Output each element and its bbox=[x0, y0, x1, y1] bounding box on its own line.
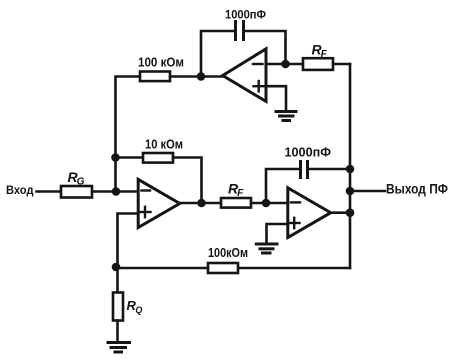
svg-text:100 кОм: 100 кОм bbox=[138, 55, 184, 69]
ground (U1 non-inverting input) bbox=[276, 112, 296, 121]
wire: top resistor to op-amp U1 output bbox=[170, 75, 223, 78]
wire: right vertical rail bbox=[349, 64, 352, 268]
op-amp U2 minus marking bbox=[142, 189, 151, 191]
wire: output tap to terminal bbox=[350, 190, 385, 193]
wire: R_G to U2 inverting input bbox=[92, 190, 138, 193]
resistor 10 кОм bbox=[143, 153, 173, 163]
wire: bottom feedback left segment bbox=[116, 267, 208, 270]
op-amp U3 (integrator, pointing right) bbox=[288, 188, 331, 238]
wire: U3 output to right rail bbox=[331, 211, 350, 214]
resistor 100кОм (bottom feedback) bbox=[208, 263, 238, 273]
svg-text:Выход ПФ: Выход ПФ bbox=[386, 181, 448, 196]
wire: R_F to U3 inverting input bbox=[251, 202, 288, 205]
op-amp U1 minus marking bbox=[253, 63, 263, 65]
wire: C1 right lead down to U1 inverting input node bbox=[244, 31, 286, 64]
wire: bottom feedback right segment bbox=[238, 267, 350, 270]
wire: R_F to right rail bbox=[333, 63, 350, 66]
node: junction of C1, 100k and U1 output bbox=[197, 72, 206, 81]
svg-text:RG: RG bbox=[68, 169, 85, 188]
wire: U1 inverting input bbox=[266, 63, 286, 66]
resistor 100 кОм (top feedback) bbox=[140, 72, 170, 82]
wire: input terminal to R_G bbox=[37, 190, 62, 193]
wire: U3 non-inverting input to ground bbox=[267, 224, 288, 242]
svg-text:10 кОм: 10 кОм bbox=[145, 137, 183, 151]
op-amp U2 (summing amp, pointing right) bbox=[138, 179, 180, 227]
wire: U2 non-inverting input down to Q node bbox=[118, 214, 139, 267]
capacitor C1 1000 пФ bbox=[236, 22, 244, 40]
svg-text:1000пФ: 1000пФ bbox=[285, 146, 332, 160]
node: U2 output junction bbox=[197, 199, 206, 208]
wire: C2 left lead bbox=[266, 169, 301, 203]
svg-text:Вход: Вход bbox=[6, 183, 34, 197]
node: U2 inverting input junction bbox=[112, 187, 121, 196]
op-amp U3 plus marking bbox=[289, 218, 300, 228]
wire: R_Q to ground bbox=[116, 321, 119, 343]
ground (U3 non-inverting input) bbox=[256, 244, 277, 253]
node: U1 inverting input / C1 / R_F junction bbox=[281, 60, 290, 69]
op-amp U3 minus marking bbox=[291, 201, 300, 203]
node: U3 inverting input junction bbox=[262, 199, 271, 208]
wire: left vertical rail from top feedback down to R_G node bbox=[116, 77, 141, 193]
node: Q-setting junction bbox=[112, 263, 121, 272]
svg-text:100кОм: 100кОм bbox=[208, 246, 248, 260]
node: U3 output on right rail bbox=[346, 208, 355, 217]
resistor R_G bbox=[61, 186, 92, 198]
resistor R_Q bbox=[113, 293, 123, 321]
wire: node to R_F bbox=[286, 63, 304, 66]
svg-text:1000пФ: 1000пФ bbox=[225, 10, 266, 22]
resistor R_F (middle) bbox=[221, 198, 251, 208]
wire: U2 output bbox=[180, 202, 221, 205]
resistor R_F (top) bbox=[303, 58, 333, 70]
wire: node to 10 кОм bbox=[116, 156, 144, 159]
op-amp U1 (top integrator, pointing left) bbox=[223, 49, 266, 102]
op-amp U1 plus marking bbox=[254, 81, 265, 91]
svg-text:RF: RF bbox=[228, 181, 244, 200]
node: 10 кОм feedback tap on left rail bbox=[111, 153, 120, 162]
node: bandpass output tap bbox=[346, 187, 355, 196]
wire: U1 non-inverting input to ground bbox=[266, 86, 286, 110]
wire: node down to R_Q bbox=[116, 267, 119, 293]
wire: 10 кОм to U2 output node bbox=[173, 158, 202, 204]
wire: C1 left lead bbox=[201, 31, 236, 77]
capacitor C2 1000 пФ bbox=[301, 162, 308, 178]
wire: C2 right lead bbox=[308, 168, 351, 171]
op-amp U2 plus marking bbox=[140, 207, 151, 217]
svg-text:RF: RF bbox=[312, 42, 328, 61]
svg-text:RQ: RQ bbox=[127, 298, 143, 315]
ground (R_Q) bbox=[108, 343, 130, 353]
node: C2 to right rail bbox=[346, 165, 355, 174]
